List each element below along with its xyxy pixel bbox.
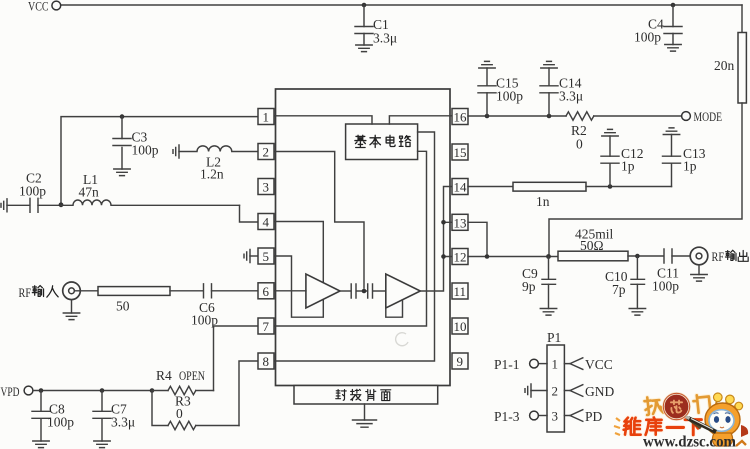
svg-text:100p: 100p	[191, 313, 218, 328]
ground of C13 (up)	[663, 128, 679, 135]
svg-text:47n: 47n	[79, 185, 100, 200]
svg-text:VCC: VCC	[28, 0, 49, 14]
sparkles left of red text	[614, 418, 620, 435]
faint scan mark	[396, 333, 408, 346]
inductor L2	[179, 146, 258, 182]
svg-text:R4: R4	[156, 368, 172, 383]
svg-text:1p: 1p	[621, 159, 635, 174]
wire pin1 stub to block	[274, 116, 372, 124]
svg-text:1p: 1p	[683, 159, 697, 174]
magnifier with 芯	[663, 393, 701, 428]
www.dzsc.com	[643, 434, 737, 449]
inductor L1	[61, 172, 240, 205]
svg-text:1n: 1n	[536, 194, 550, 209]
microstrip 50 input	[75, 287, 171, 314]
capacitor C8	[32, 391, 74, 442]
svg-text:4: 4	[263, 215, 270, 230]
terminal VPD	[1, 385, 33, 399]
ground of C10	[629, 309, 645, 316]
coupling capacitors between amps	[340, 284, 386, 298]
wire pin5 to amp1 bottom	[274, 256, 323, 317]
ground of RF input	[63, 313, 79, 320]
svg-text:15: 15	[454, 145, 467, 160]
ground of package back	[353, 420, 377, 427]
svg-text:3: 3	[552, 409, 559, 424]
label RF输入	[19, 286, 59, 300]
ground of RF output	[691, 275, 707, 282]
wire pin2 to interstage node	[274, 152, 364, 289]
svg-text:7p: 7p	[612, 282, 626, 297]
wire right edge drop	[741, 5, 743, 33]
capacitor C13	[663, 135, 706, 187]
wire R3 to pin8	[239, 361, 258, 426]
IC body U1	[276, 89, 451, 386]
node junction pin12 feedback	[441, 254, 446, 259]
node junction pin13 join	[485, 254, 490, 259]
wire pin4 to amp1 top	[274, 222, 323, 282]
node junction pin13 feedback	[441, 220, 446, 225]
capacitor C11	[652, 249, 690, 294]
svg-text:3.3μ: 3.3μ	[111, 415, 135, 430]
terminal P1-3	[494, 409, 547, 424]
svg-text:www.dzsc.com: www.dzsc.com	[643, 434, 737, 449]
ground of C14 (up)	[541, 61, 557, 68]
node junction C2/L1	[59, 202, 64, 207]
capacitor C14	[540, 68, 583, 116]
inductor 20n (microstrip stub)	[714, 33, 746, 104]
feedthrough at C2 input	[1, 199, 7, 212]
svg-text:100p: 100p	[634, 30, 661, 45]
svg-text:2: 2	[263, 145, 270, 160]
ground of C4	[665, 45, 681, 52]
wire from 20n down and over to output line	[549, 103, 742, 257]
amplifier A1	[306, 274, 340, 308]
capacitor C4	[634, 5, 682, 45]
resistor R2	[566, 112, 682, 152]
svg-text:14: 14	[454, 180, 468, 195]
svg-text:11: 11	[454, 284, 467, 299]
pin boxes right	[452, 109, 468, 370]
node junction C10	[635, 254, 640, 259]
internal block 基本电路	[346, 124, 418, 160]
wire pin16 stub to block	[389, 116, 452, 124]
package back plate box	[294, 386, 438, 421]
svg-text:3.3μ: 3.3μ	[373, 31, 397, 46]
capacitor C6	[170, 284, 258, 328]
svg-text:10: 10	[454, 319, 467, 334]
svg-text:P1-3: P1-3	[494, 409, 520, 424]
pin boxes left	[258, 109, 274, 370]
node junction C12	[608, 184, 613, 189]
ground of C7	[94, 441, 110, 448]
ground of C9	[540, 309, 556, 316]
node junction C3	[120, 114, 125, 119]
node junction C15	[485, 114, 490, 119]
wire pin13 jog	[468, 222, 487, 256]
node junction R4/R3	[150, 388, 155, 393]
svg-text:6: 6	[263, 284, 270, 299]
RF output connector	[690, 247, 708, 274]
svg-text:100p: 100p	[652, 279, 679, 294]
capacitor C12	[601, 136, 644, 187]
svg-text:GND: GND	[585, 384, 614, 399]
ground of C1	[356, 45, 372, 52]
node junction C9	[546, 254, 551, 259]
svg-text:5: 5	[263, 249, 270, 264]
wire VPD net	[33, 390, 152, 392]
resistor R4	[152, 368, 214, 395]
capacitor C1	[355, 5, 397, 46]
svg-text:PD: PD	[585, 409, 603, 424]
svg-text:9p: 9p	[522, 279, 536, 294]
svg-text:16: 16	[454, 110, 468, 125]
svg-text:12: 12	[454, 250, 467, 265]
pin VCC arrow	[564, 357, 612, 372]
orange text 找	[644, 396, 663, 415]
ground of C12 (up)	[602, 129, 618, 136]
svg-text:3.3μ: 3.3μ	[559, 89, 583, 104]
svg-text:8: 8	[263, 354, 270, 369]
node junction C8	[39, 388, 44, 393]
mascot	[686, 393, 749, 446]
orange text 片	[693, 394, 711, 413]
capacitor C3	[113, 117, 159, 169]
svg-text:20n: 20n	[714, 58, 735, 73]
ground of C15 (up)	[479, 61, 495, 68]
svg-text:7: 7	[263, 319, 270, 334]
pin GND arrow	[564, 384, 614, 399]
svg-text:100p: 100p	[496, 89, 523, 104]
microstrip 425mil 50ohm	[558, 227, 664, 261]
wire pin1 net	[61, 117, 258, 205]
svg-text:RF: RF	[19, 286, 32, 300]
wire amp2 ground bracket	[386, 300, 403, 317]
svg-text:0: 0	[576, 137, 583, 152]
label RF输出	[712, 250, 749, 264]
RF input connector	[63, 282, 81, 313]
feedthrough ground P1-2	[525, 384, 547, 397]
feedthrough at L2 input	[173, 145, 179, 158]
svg-text:VPD: VPD	[1, 385, 20, 399]
svg-text:50: 50	[116, 299, 130, 314]
microstrip 1n	[513, 182, 672, 209]
label 基本电路 in block	[355, 135, 411, 147]
capacitor C2	[7, 171, 61, 213]
svg-text:VCC: VCC	[585, 357, 613, 372]
svg-text:P1-1: P1-1	[494, 357, 520, 372]
svg-text:1: 1	[552, 357, 559, 372]
capacitor C10	[605, 256, 645, 309]
capacitor C15	[478, 68, 523, 116]
wire L1 to pin4	[240, 205, 259, 222]
node junction interstage	[362, 289, 367, 294]
wire pin14 net	[468, 186, 513, 188]
pin PD arrow	[564, 409, 602, 424]
svg-text:P1: P1	[547, 330, 561, 345]
svg-text:MODE: MODE	[694, 110, 723, 124]
capacitor C7	[93, 391, 135, 442]
node junction C7	[100, 388, 105, 393]
connector P1	[547, 330, 564, 432]
watermark dzsc logo group	[614, 393, 748, 449]
svg-text:100p: 100p	[19, 184, 46, 199]
svg-text:100p: 100p	[47, 415, 74, 430]
terminal MODE	[682, 110, 723, 124]
svg-text:1.2n: 1.2n	[200, 167, 224, 182]
wire pin6 to amp1	[274, 290, 306, 292]
wire block to pin8	[274, 132, 435, 361]
svg-text:0: 0	[176, 406, 183, 421]
node junction C4	[671, 3, 676, 8]
feedthrough at pin5	[244, 250, 258, 263]
svg-text:2: 2	[552, 384, 559, 399]
red text 维库一下	[624, 417, 702, 435]
terminal P1-1	[494, 357, 547, 372]
node junction C1	[362, 3, 367, 8]
svg-text:50Ω: 50Ω	[580, 238, 604, 253]
wire amp2 output to pins 12/13/14	[420, 187, 452, 292]
wire block to pin7	[274, 151, 427, 326]
svg-text:3: 3	[263, 180, 270, 195]
svg-text:RF: RF	[712, 250, 725, 264]
wire pin16 net	[468, 115, 566, 117]
capacitor C9	[522, 257, 556, 309]
resistor R3	[152, 391, 239, 430]
svg-text:1: 1	[263, 110, 270, 125]
terminal VCC	[28, 0, 61, 14]
svg-text:9: 9	[457, 354, 464, 369]
wire pin12 output net	[468, 256, 558, 258]
svg-text:OPEN: OPEN	[179, 369, 205, 383]
amplifier A2	[386, 274, 421, 308]
node junction C14	[547, 114, 552, 119]
ground of C8	[33, 441, 49, 448]
svg-text:100p: 100p	[132, 143, 159, 158]
svg-text:13: 13	[454, 215, 467, 230]
wire R4 to pin7	[214, 326, 259, 391]
label 封装背面 on package box	[336, 389, 391, 400]
wire VCC top rail	[61, 4, 743, 6]
ground of C3	[114, 169, 130, 176]
